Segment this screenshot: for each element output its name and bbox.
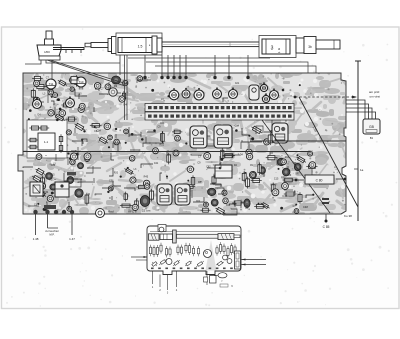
svg-text:Ko 38: Ko 38 xyxy=(344,214,352,218)
trimmer row xyxy=(182,88,190,98)
transistor T10 xyxy=(76,77,86,90)
wire to MP xyxy=(47,214,49,228)
svg-text:C 85: C 85 xyxy=(323,225,330,229)
svg-text:a: a xyxy=(278,47,280,51)
svg-text:am prüf.: am prüf. xyxy=(369,90,380,94)
dark bar left cluster xyxy=(44,205,56,209)
antenna left housing body xyxy=(118,38,152,53)
small board transistor big xyxy=(204,250,212,258)
svg-text:3b: 3b xyxy=(308,45,312,49)
equals mark xyxy=(322,198,329,200)
antenna joint xyxy=(296,38,304,53)
component cluster center mid xyxy=(235,124,273,145)
svg-text:C34: C34 xyxy=(235,124,240,127)
jack H50 body xyxy=(37,45,61,56)
component C80 xyxy=(305,175,334,184)
wire antenna drop left xyxy=(119,55,121,75)
component cluster left lower xyxy=(23,153,91,211)
small board right callouts xyxy=(242,259,267,261)
wire to 1.47 xyxy=(71,214,73,235)
component cluster upper left xyxy=(31,75,142,107)
filter can 1.12 xyxy=(175,184,190,205)
svg-text:22 um: 22 um xyxy=(142,209,151,213)
label strip row1 xyxy=(145,104,294,112)
diagonal pointer 2 xyxy=(262,120,330,213)
wires to GB box xyxy=(346,100,365,119)
small board bottom tick labels xyxy=(151,268,233,270)
transistor T11 xyxy=(46,79,56,92)
small board parts row1 xyxy=(149,242,236,258)
small board left callouts xyxy=(131,256,147,258)
IF can 2 xyxy=(214,125,232,148)
component cluster top row extra xyxy=(151,82,301,102)
svg-text:Rad: Rad xyxy=(108,210,114,214)
wire mesh xyxy=(28,80,312,215)
svg-text:1.5: 1.5 xyxy=(138,45,143,49)
small board bottom wires left xyxy=(152,271,154,284)
ferrite rod xyxy=(177,234,219,238)
ferrite coil right xyxy=(218,234,234,240)
battery box GB xyxy=(363,119,380,134)
right mid cluster C44 C48 xyxy=(284,192,296,196)
electrolytic cap dark xyxy=(112,76,121,84)
svg-text:R33: R33 xyxy=(114,172,119,175)
svg-text:M.P.: M.P. xyxy=(50,233,55,237)
telescopic antenna tip rod xyxy=(91,43,108,48)
solder lugs bottom left xyxy=(33,210,37,214)
svg-text:C21: C21 xyxy=(154,162,159,165)
antenna left housing outer box xyxy=(116,33,162,55)
resistor left column xyxy=(28,138,38,142)
diagonal pointer 1.59 xyxy=(299,97,358,207)
wire horizontal bus under antenna xyxy=(128,57,270,59)
svg-text:R51: R51 xyxy=(56,99,61,102)
svg-text:R51: R51 xyxy=(160,144,165,147)
IF can 3 xyxy=(272,123,288,143)
coils right top xyxy=(260,82,267,91)
ferrite coil left 2 xyxy=(160,234,173,240)
resistor field top xyxy=(29,126,40,130)
transformer square A xyxy=(30,182,43,196)
copper trace texture xyxy=(10,65,359,219)
wire bus from jack xyxy=(25,60,41,64)
C85 wire and label xyxy=(325,214,327,222)
white component field xyxy=(27,120,67,158)
dark cap bottom-left xyxy=(75,189,83,197)
IF can 1 xyxy=(190,126,207,148)
svg-text:R45: R45 xyxy=(144,175,149,178)
mounting hole xyxy=(96,209,105,218)
ferrite coil left 1 xyxy=(149,234,160,240)
small PCB outline xyxy=(147,226,241,275)
coil left2 xyxy=(66,96,75,107)
antenna right block 3a xyxy=(262,39,290,54)
antenna block 3b xyxy=(304,37,316,54)
svg-text:B1: B1 xyxy=(370,136,374,140)
component cluster bottom center xyxy=(184,148,318,216)
svg-text:zur leuchter: zur leuchter xyxy=(45,229,59,233)
small board transistor left xyxy=(166,259,172,265)
component cluster right of field xyxy=(66,122,101,160)
dashed callout line xyxy=(295,96,356,98)
svg-text:1-1: 1-1 xyxy=(44,140,49,144)
dark cap bottom-left2 xyxy=(46,173,53,180)
svg-text:T10: T10 xyxy=(79,80,84,84)
svg-text:C44: C44 xyxy=(282,194,287,198)
spade lug xyxy=(218,273,227,278)
antenna right housing outer box xyxy=(259,36,296,58)
telescopic antenna tip nub xyxy=(85,43,91,47)
relay box center xyxy=(215,165,232,178)
small board bottom center parts xyxy=(206,271,208,285)
antenna middle rod xyxy=(162,42,262,47)
module 1-1 xyxy=(38,133,55,150)
coil 1.39 xyxy=(33,97,42,108)
svg-text:om virst: om virst xyxy=(370,95,381,99)
tuning cone shade xyxy=(206,240,217,271)
svg-text:GB: GB xyxy=(369,125,375,129)
label strip row2 xyxy=(145,112,294,120)
long bus line xyxy=(23,151,310,153)
jack mounting plate xyxy=(53,48,84,50)
component cluster center band xyxy=(141,126,187,181)
svg-text:T11: T11 xyxy=(49,82,54,86)
trimmer cap rounded xyxy=(249,85,259,100)
svg-text:C21: C21 xyxy=(235,82,240,85)
small board transistors right xyxy=(223,255,228,260)
vertical pointer line xyxy=(357,61,359,221)
small board dial line xyxy=(150,231,240,233)
svg-text:1a: 1a xyxy=(360,168,364,172)
svg-text:AFC II: AFC II xyxy=(128,210,137,214)
antenna coupling sleeve xyxy=(152,36,157,54)
svg-text:H50: H50 xyxy=(44,50,50,54)
antenna clamp xyxy=(173,230,177,243)
jack H50 shaft xyxy=(46,31,52,41)
antenna collar rings xyxy=(108,39,112,52)
wire to 1.48 xyxy=(35,214,37,235)
svg-text:1.47: 1.47 xyxy=(69,237,75,241)
capacitor near T10 xyxy=(69,77,79,84)
antenna base segment xyxy=(316,40,340,49)
svg-text:C 80: C 80 xyxy=(316,179,323,183)
coil 1.17 xyxy=(169,88,179,100)
small board right rect xyxy=(235,251,241,269)
svg-text:C34: C34 xyxy=(44,191,49,194)
dark cap mid xyxy=(140,196,150,207)
svg-text:C15: C15 xyxy=(274,178,279,181)
component cluster upper left strip2 xyxy=(28,103,94,122)
component cluster mid column xyxy=(96,123,153,210)
wire drops to board xyxy=(144,55,146,76)
filter can 1.10 xyxy=(157,184,172,205)
component cluster below bus xyxy=(187,153,261,187)
svg-text:3: 3 xyxy=(271,46,274,52)
wire jack diagonal xyxy=(47,60,125,86)
jack H50 base xyxy=(39,56,60,60)
small board diagonal parts xyxy=(152,259,224,267)
svg-text:R33: R33 xyxy=(281,176,286,179)
svg-text:C62: C62 xyxy=(196,200,201,203)
dial pulley tab xyxy=(158,225,166,232)
tiny bottom labels xyxy=(220,284,228,287)
svg-text:C48: C48 xyxy=(303,205,308,209)
cap below xyxy=(109,88,117,96)
transformer square B xyxy=(55,182,69,197)
svg-text:1.48: 1.48 xyxy=(33,237,39,241)
